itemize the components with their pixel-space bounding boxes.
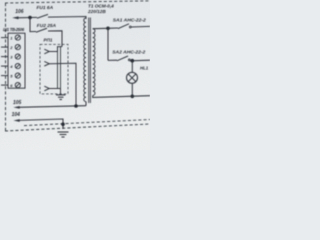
transformer T1 primary winding — [84, 18, 86, 102]
switch SA2 — [108, 59, 117, 61]
enclosure dashed border left — [5, 3, 7, 131]
wire 105 arrow — [13, 106, 19, 109]
wire lamp bottom — [131, 83, 133, 96]
transformer T1 core — [88, 18, 90, 104]
wire 106 — [17, 16, 37, 18]
transformer T1 secondary winding — [93, 29, 95, 96]
node junction lamp tap — [131, 59, 135, 63]
lamp HL1 — [127, 72, 138, 83]
wire T1 primary bottom to wire 105 — [85, 102, 87, 106]
node junction on border — [61, 122, 65, 126]
wire SA1 out — [131, 25, 150, 28]
ground G1 — [60, 89, 62, 95]
terminal 1 stub — [1, 37, 8, 39]
node junction lamp bottom — [131, 95, 135, 99]
wire lamp top — [131, 61, 133, 73]
wire contact2 to node A — [49, 63, 76, 106]
wire T1 secondary top — [93, 27, 108, 29]
wire contact1 jog to FU2 entry — [58, 47, 63, 52]
enclosure dashed border bottom — [24, 120, 150, 126]
wire SA2 out — [130, 59, 150, 62]
connector contact 3 — [44, 86, 49, 91]
wire FU1 to T1 primary — [48, 17, 86, 20]
terminal 6 stub — [1, 84, 8, 86]
node A junction — [74, 104, 78, 108]
switch SA1 — [108, 27, 118, 29]
terminal 2 stub — [1, 46, 8, 48]
connector contact 1 — [44, 49, 49, 54]
wire 104 — [19, 119, 64, 129]
wire 106 arrow — [12, 16, 18, 19]
terminal 5 stub — [1, 75, 8, 77]
fuse-switch FU2 — [36, 28, 47, 32]
terminal 3 stub — [1, 56, 8, 58]
wire 104 arrow — [13, 119, 19, 122]
wire 105 — [19, 106, 87, 108]
wire internal bus right — [60, 47, 62, 89]
ground G2 — [58, 131, 69, 133]
terminal 4 stub — [1, 65, 8, 67]
enclosure dashed border top — [5, 1, 150, 3]
second dashed panel line bottom — [5, 124, 150, 131]
wire J2 down to SA2 — [107, 28, 109, 60]
wire internal bus left — [57, 47, 59, 89]
connector contact 2 — [44, 61, 49, 66]
wire J1 to FU2 — [30, 18, 36, 32]
node junction J2 — [106, 27, 110, 31]
relay socket RP1 dashed box — [40, 44, 68, 94]
fuse-switch FU1 — [37, 14, 48, 18]
wire FU2 to RP1 — [48, 31, 62, 47]
wire T1 secondary bottom — [93, 96, 150, 98]
node junction J1 — [28, 16, 32, 20]
terminal block Sh1 body — [8, 33, 25, 88]
